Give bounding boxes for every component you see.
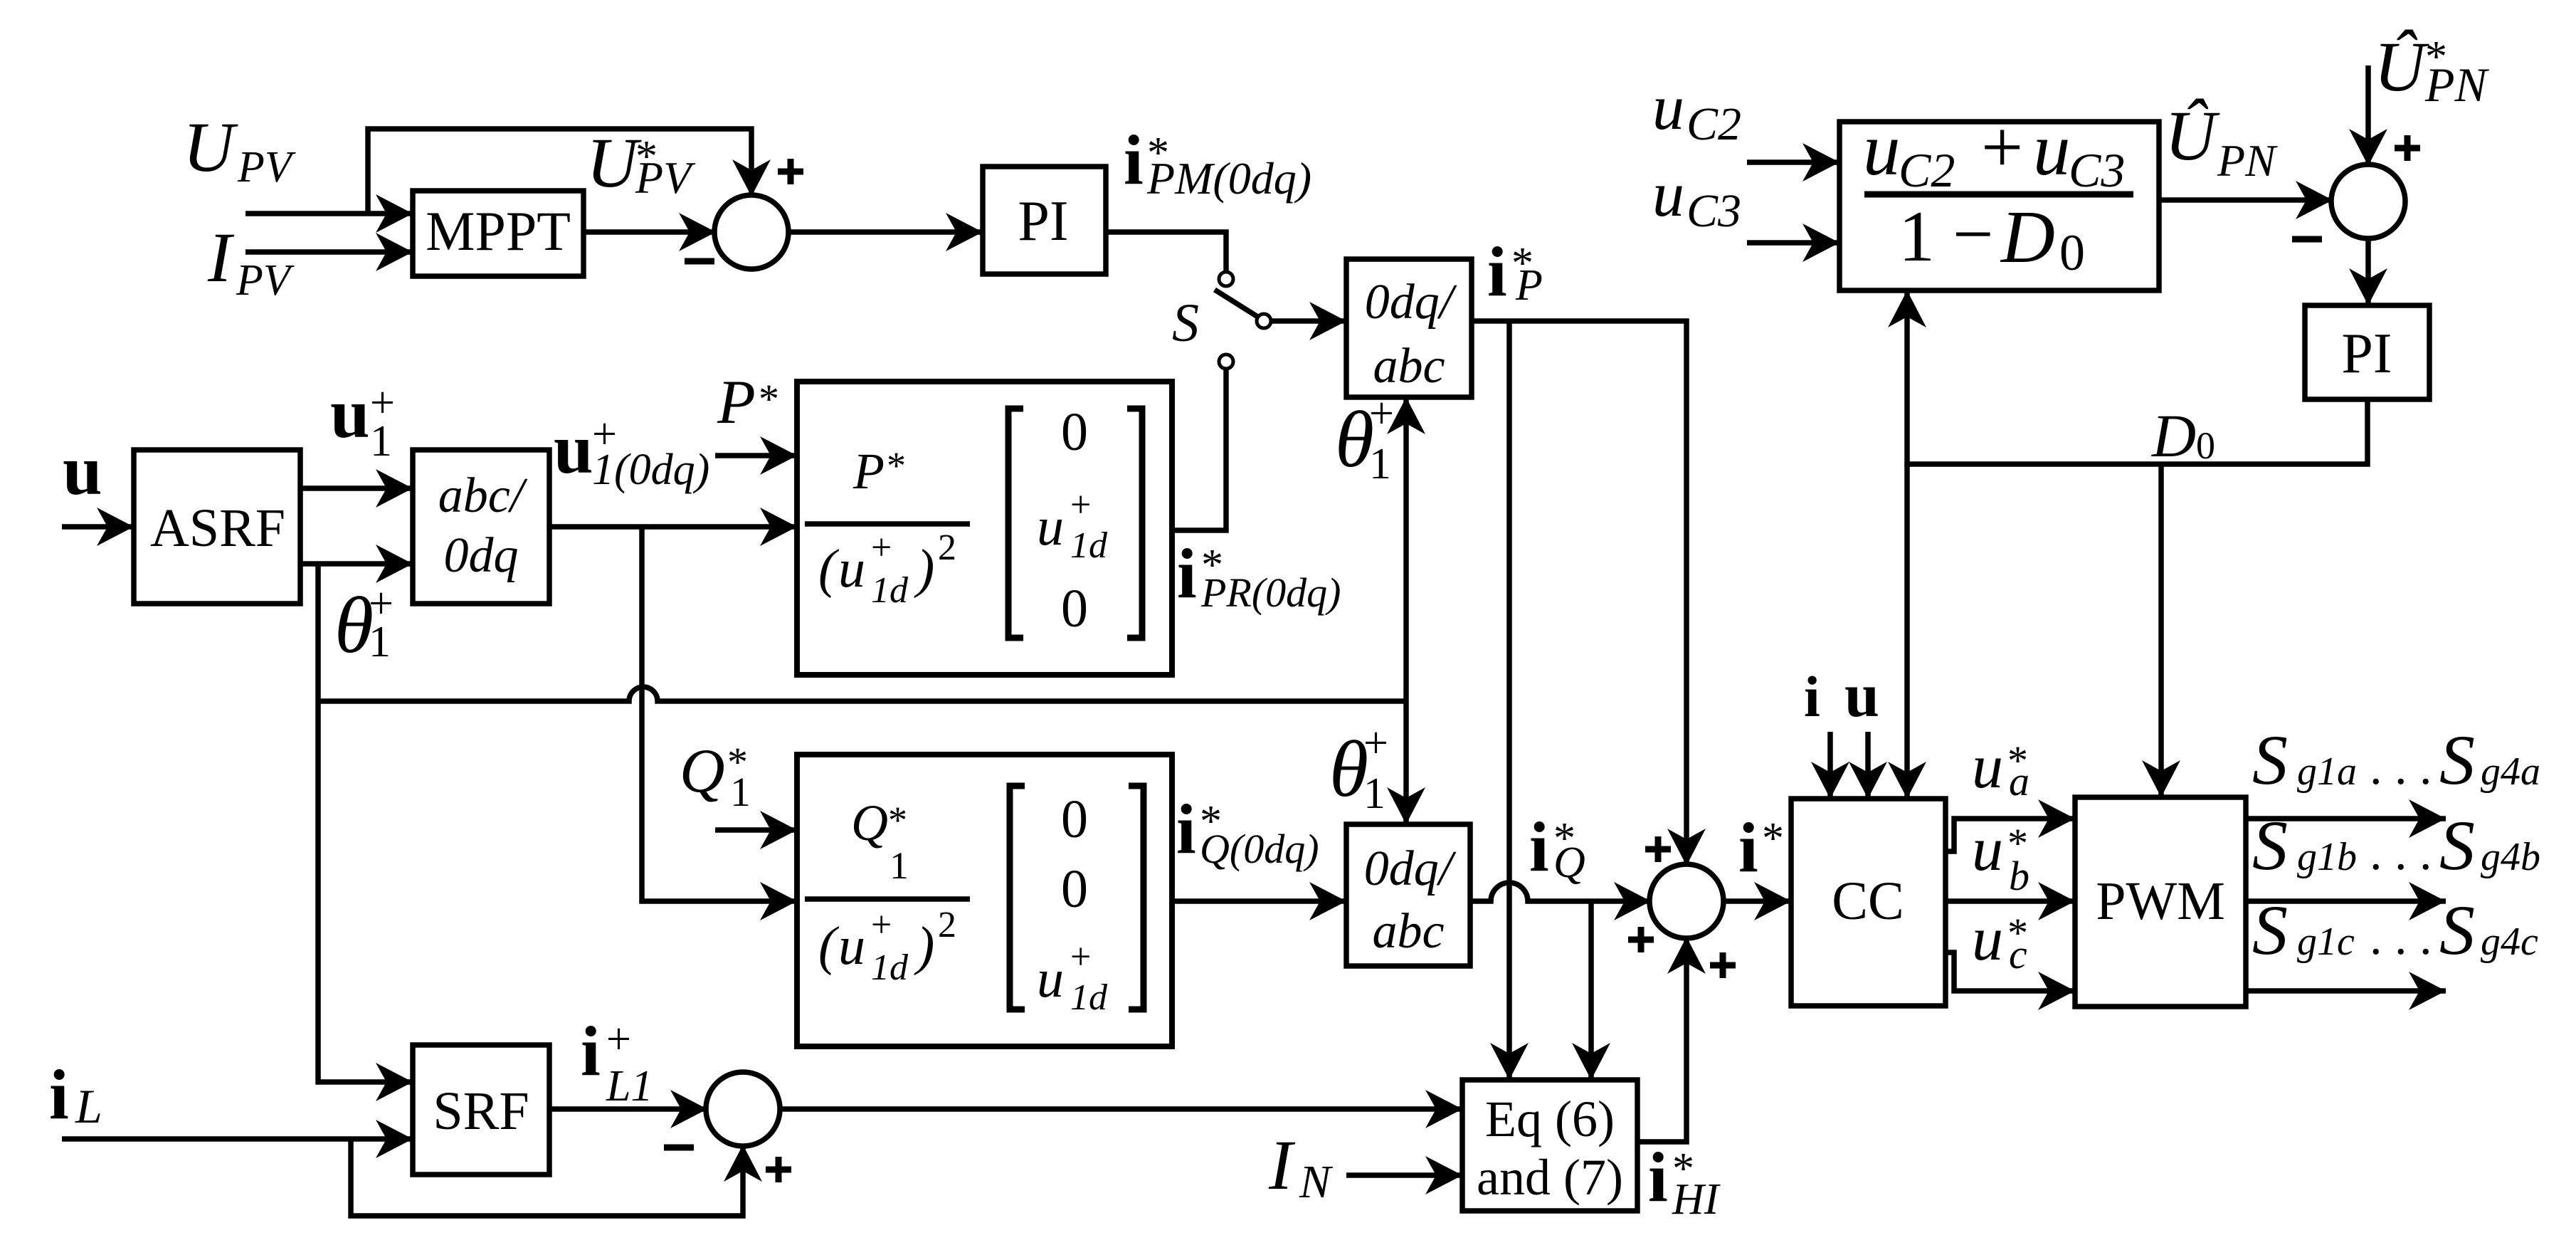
svg-text:0: 0	[1061, 859, 1088, 919]
switch top contact	[1219, 272, 1233, 286]
wire theta down into 0dq/abc lower block	[1403, 701, 1409, 824]
wire MPPT output	[584, 229, 716, 235]
label i bold CC input	[1804, 664, 1820, 729]
svg-text:1(0dq): 1(0dq)	[592, 446, 709, 494]
svg-text:S: S	[2252, 720, 2288, 799]
svg-text:g4c: g4c	[2481, 920, 2538, 964]
svg-text:1: 1	[369, 618, 391, 666]
wire theta horizontal with hop to transform blocks	[318, 687, 1406, 701]
minus sign at S1 left input	[685, 258, 714, 265]
fraction Q* denominator (u1d+)^2	[818, 905, 956, 988]
svg-text:i: i	[581, 1012, 601, 1091]
wire u_C3 input	[1747, 240, 1839, 246]
wire i into CC	[1827, 732, 1833, 799]
wire u*_b CC to PWM	[1946, 898, 2075, 904]
svg-text:*: *	[888, 799, 907, 841]
plus sign at S2 top input	[1645, 836, 1671, 862]
svg-text:g4b: g4b	[2481, 835, 2540, 879]
matrix Q entry 0 middle	[1061, 859, 1088, 919]
svg-text:D: D	[2000, 195, 2055, 278]
svg-text:0: 0	[1061, 579, 1088, 639]
minus sign at S4 left input	[2292, 236, 2322, 243]
fraction bar	[1864, 191, 2133, 198]
block PI2	[2305, 305, 2429, 399]
svg-text:+: +	[1070, 937, 1091, 977]
svg-text:U: U	[183, 107, 238, 187]
wire D0 branch down to PWM	[2158, 464, 2164, 797]
wire i*_P to summing junction S2	[1472, 321, 1686, 866]
svg-text:0dq/: 0dq/	[1364, 841, 1457, 896]
svg-text:−: −	[1953, 194, 1994, 275]
fraction Q* bar	[805, 896, 970, 902]
svg-text:ASRF: ASRF	[150, 498, 285, 558]
matrix P entry 0 bottom	[1061, 579, 1088, 639]
svg-text:0dq/: 0dq/	[1365, 275, 1457, 330]
svg-text:+: +	[871, 527, 892, 568]
svg-text:S: S	[2252, 891, 2288, 970]
svg-text:CC: CC	[1832, 871, 1904, 931]
svg-text:N: N	[1299, 1156, 1334, 1208]
svg-text:u: u	[2033, 107, 2071, 191]
svg-text:PI: PI	[2341, 322, 2392, 385]
svg-text:S: S	[2439, 806, 2475, 885]
svg-text:u: u	[330, 374, 370, 453]
fraction Q*1 numerator	[851, 794, 909, 887]
svg-text:HI: HI	[1672, 1175, 1721, 1224]
svg-text:a: a	[2009, 758, 2029, 804]
label u1(0dq)+	[554, 409, 709, 494]
wire S3 output to Eq block	[778, 1106, 1462, 1112]
svg-text:C3: C3	[1686, 185, 1741, 237]
svg-text:0: 0	[2059, 224, 2085, 281]
block 0dq/abc lower	[1346, 824, 1470, 966]
svg-text:PR(0dq): PR(0dq)	[1200, 569, 1341, 616]
wire i*_PR from P block to switch bottom contact	[1172, 369, 1226, 530]
summing junction S1	[714, 195, 788, 269]
block SRF	[413, 1045, 549, 1175]
label i_L	[49, 1055, 102, 1134]
svg-text:PI: PI	[1018, 190, 1068, 253]
summing junction S4	[2331, 164, 2405, 238]
svg-text:abc/: abc/	[438, 468, 528, 523]
matrix Q left bracket	[1010, 786, 1025, 1009]
svg-text:S: S	[2439, 891, 2475, 970]
svg-text:u: u	[1863, 107, 1901, 191]
svg-text:PV: PV	[635, 152, 696, 203]
label u*_a	[1972, 732, 2029, 804]
svg-text:L1: L1	[606, 1062, 653, 1110]
svg-text:Q: Q	[1553, 839, 1585, 887]
matrix Q entry 0 top	[1061, 789, 1088, 849]
label u1+	[330, 374, 395, 466]
svg-text:*: *	[759, 376, 779, 422]
block PI1	[983, 167, 1106, 274]
svg-text:PM(0dq): PM(0dq)	[1146, 153, 1311, 204]
switch blade	[1215, 290, 1259, 317]
svg-text:i: i	[1177, 534, 1197, 613]
plus sign at S1 top input	[778, 159, 803, 184]
wire S_g1a output	[2246, 816, 2446, 821]
label S_g1a...S_g4a	[2252, 720, 2540, 799]
label S_g1b...S_g4b	[2252, 806, 2540, 885]
matrix P left bracket	[1008, 409, 1023, 638]
svg-text:u: u	[1972, 815, 2003, 884]
svg-text:0: 0	[1061, 402, 1088, 462]
wire S1 to PI	[787, 229, 983, 235]
label i*_Q	[1529, 807, 1585, 887]
svg-text:i: i	[1124, 120, 1144, 199]
svg-text:u: u	[1972, 732, 2003, 802]
svg-text:Û: Û	[2165, 96, 2220, 175]
svg-text:0: 0	[1061, 789, 1088, 849]
wire u input	[62, 524, 134, 530]
wire theta1+ ASRF to abc/0dq	[300, 561, 413, 567]
wire u1+ ASRF to abc/0dq	[300, 485, 413, 491]
svg-text:u: u	[63, 431, 102, 510]
label i+_L1	[581, 1012, 653, 1110]
wire Q*1 input	[715, 827, 797, 833]
fraction P* denominator (u1d+)^2	[818, 527, 956, 611]
svg-text:1: 1	[370, 417, 392, 466]
svg-text:i: i	[1176, 789, 1196, 868]
plus sign at S2 left input	[1628, 927, 1654, 952]
svg-text:g1a: g1a	[2297, 750, 2357, 794]
svg-text:i: i	[1738, 808, 1758, 887]
wire i* S2 to CC	[1722, 898, 1791, 904]
svg-text:0dq: 0dq	[444, 528, 519, 583]
label u bold CC input	[1844, 661, 1879, 730]
svg-text:g4a: g4a	[2481, 750, 2540, 794]
wire i_L input	[62, 1136, 413, 1142]
svg-text:i: i	[49, 1055, 69, 1134]
svg-text:P: P	[852, 443, 885, 500]
label theta1+ at box1 bottom	[1335, 389, 1394, 488]
label S switch	[1172, 293, 1199, 353]
svg-text:2: 2	[938, 905, 956, 945]
wire i*_HI Eq output up to S2	[1637, 937, 1686, 1142]
svg-text:g1c: g1c	[2297, 920, 2355, 964]
svg-text:1: 1	[890, 844, 909, 887]
label U*_PV	[586, 123, 696, 203]
label P* input	[717, 368, 779, 437]
wire S_g1c output	[2246, 988, 2446, 994]
label i*_Q(0dq)	[1176, 789, 1319, 872]
svg-text:PN: PN	[2424, 58, 2490, 112]
svg-text:MPPT: MPPT	[426, 200, 571, 262]
svg-text:PWM: PWM	[2096, 871, 2225, 931]
wire I_N input	[1346, 1172, 1462, 1178]
svg-text:c: c	[2009, 931, 2027, 977]
svg-text:Eq (6): Eq (6)	[1485, 1091, 1615, 1147]
block P* gain	[797, 382, 1172, 675]
fraction denominator 1-D0	[1899, 194, 2085, 281]
svg-text:θ: θ	[1329, 725, 1368, 814]
svg-text:. . .: . . .	[2370, 910, 2432, 965]
block CC	[1791, 799, 1946, 1006]
label S_g1c...S_g4c	[2252, 891, 2538, 970]
wire U^*_PN input down to S4	[2365, 65, 2371, 166]
wire U_PV feedback to summing junction	[368, 129, 751, 214]
label U_PV	[183, 107, 296, 191]
wire u*_a CC to PWM	[1946, 819, 2075, 851]
svg-text:Q: Q	[680, 737, 725, 806]
wire U_PV input	[246, 211, 413, 216]
svg-text:1: 1	[1899, 196, 1935, 277]
svg-text:D: D	[2151, 401, 2196, 470]
svg-text:. . .: . . .	[2370, 740, 2432, 795]
matrix P right bracket	[1127, 409, 1142, 638]
svg-text:abc: abc	[1373, 339, 1445, 394]
svg-text:*: *	[1762, 814, 1784, 863]
wire theta vertical branch down to SRF	[318, 564, 413, 1082]
svg-text:Q: Q	[851, 794, 888, 851]
svg-text:1: 1	[730, 769, 751, 815]
wire D0 from PI2 to fraction block and converters	[1907, 290, 2368, 464]
wire u1(0dq) to P block	[549, 524, 797, 530]
svg-text:+: +	[1363, 719, 1388, 767]
label I_N	[1268, 1125, 1334, 1208]
svg-text:+: +	[606, 1015, 631, 1063]
matrix P entry 0 top	[1061, 402, 1088, 462]
switch bottom contact	[1219, 354, 1233, 369]
label U^*_PN reference	[2374, 27, 2490, 112]
svg-text:P: P	[1515, 261, 1543, 310]
svg-text:*: *	[887, 444, 906, 487]
svg-text:u: u	[1652, 159, 1684, 230]
svg-text:u: u	[1652, 73, 1684, 143]
svg-text:+: +	[1070, 485, 1091, 525]
matrix Q entry u1d+ bottom	[1037, 937, 1108, 1018]
label i*_PR(0dq)	[1177, 534, 1341, 616]
svg-text:u: u	[1037, 949, 1064, 1009]
label U^_PN	[2165, 96, 2278, 186]
plus sign at S2 bottom input	[1710, 952, 1736, 978]
svg-text:S: S	[2439, 720, 2475, 799]
wire i*_Q branch down to Eq block	[1588, 901, 1594, 1080]
label i*_HI	[1648, 1138, 1721, 1224]
svg-text:u: u	[554, 409, 593, 488]
minus sign at S3 left input	[664, 1145, 694, 1151]
label u*_b	[1972, 815, 2029, 899]
wire switch to 0dq/abc block	[1271, 318, 1346, 324]
svg-text:0: 0	[2196, 424, 2215, 467]
svg-text:i: i	[1529, 807, 1549, 886]
plus sign at S4 top input	[2395, 135, 2420, 161]
svg-text:1d: 1d	[871, 570, 909, 611]
svg-text:I: I	[1268, 1125, 1296, 1204]
wire u into CC	[1865, 732, 1871, 799]
wire u_C2 input	[1747, 159, 1839, 165]
summing junction S3	[706, 1072, 780, 1146]
wire S4 output to PI2	[2365, 237, 2371, 305]
label theta1+ at box2 top	[1329, 719, 1388, 818]
svg-text:b: b	[2009, 853, 2029, 899]
svg-text:u: u	[1972, 905, 2003, 974]
svg-text:C2: C2	[1686, 98, 1741, 150]
summing junction S2	[1649, 864, 1724, 938]
label u*_c	[1972, 905, 2028, 977]
label I_PV	[207, 218, 295, 305]
label i*_PM(0dq)	[1124, 120, 1311, 204]
svg-text:C2: C2	[1899, 143, 1955, 197]
svg-text:+: +	[871, 905, 892, 945]
label D0	[2151, 401, 2215, 470]
svg-text:1d: 1d	[871, 947, 909, 988]
wire D0 branch down to CC	[1904, 464, 1910, 799]
fraction P* numerator	[852, 443, 906, 500]
switch middle contact	[1257, 314, 1271, 328]
wire SRF output to S3	[549, 1106, 707, 1112]
wire S_g1b output	[2246, 898, 2446, 904]
svg-text:I: I	[207, 218, 235, 297]
svg-text:1d: 1d	[1070, 977, 1108, 1018]
matrix P entry u1d+ middle	[1037, 485, 1108, 566]
svg-text:u: u	[1844, 661, 1879, 730]
svg-text:P: P	[717, 368, 756, 437]
svg-text:abc: abc	[1372, 904, 1444, 959]
svg-text:S: S	[1172, 293, 1199, 353]
label i*	[1738, 808, 1784, 887]
wire PI1 output to switch top contact	[1106, 232, 1226, 272]
label u_C3	[1652, 159, 1741, 237]
matrix Q right bracket	[1129, 786, 1144, 1009]
block abc/0dq	[413, 450, 549, 604]
label i*_P	[1487, 232, 1543, 311]
block 0dq/abc upper	[1346, 259, 1472, 397]
svg-text:): )	[914, 916, 934, 976]
wire theta up into 0dq/abc upper block	[1403, 397, 1409, 701]
wire i*_P branch down to Eq block	[1506, 321, 1512, 1080]
svg-text:): )	[914, 539, 934, 599]
svg-text:Û: Û	[2374, 27, 2429, 106]
svg-text:2: 2	[938, 527, 956, 568]
fraction numerator uC2+uC3	[1863, 105, 2125, 197]
svg-text:SRF: SRF	[433, 1081, 529, 1141]
svg-text:1: 1	[1369, 440, 1391, 488]
svg-text:i: i	[1487, 232, 1507, 311]
svg-text:u: u	[1037, 497, 1064, 557]
block Q* gain	[797, 755, 1172, 1046]
label Q*1 input	[680, 737, 751, 815]
svg-text:i: i	[1804, 664, 1820, 729]
wire Q block output to 0dq/abc lower	[1172, 898, 1346, 904]
svg-text:g1b: g1b	[2297, 835, 2357, 879]
block Eq 6 and 7	[1462, 1080, 1637, 1211]
label u_C2	[1652, 73, 1741, 150]
fraction P* bar	[805, 521, 970, 527]
block voltage estimator fraction	[1839, 122, 2159, 290]
svg-text:u: u	[838, 539, 865, 599]
wire u*_c CC to PWM	[1946, 952, 2075, 991]
wire I_PV input	[246, 249, 413, 255]
svg-text:S: S	[2252, 806, 2288, 885]
svg-text:and (7): and (7)	[1477, 1149, 1623, 1206]
svg-text:1d: 1d	[1070, 525, 1108, 566]
svg-text:PN: PN	[2217, 135, 2278, 186]
wire i_L branch to summing junction S3 bottom	[351, 1139, 743, 1216]
svg-text:L: L	[75, 1079, 102, 1133]
svg-text:U: U	[586, 123, 642, 202]
wire U^_PN to summing junction S4	[2160, 197, 2333, 203]
block PWM	[2075, 797, 2246, 1007]
block MPPT	[413, 191, 584, 276]
svg-text:C3: C3	[2069, 143, 2125, 197]
svg-text:Q(0dq): Q(0dq)	[1200, 826, 1319, 872]
svg-text:1: 1	[1363, 770, 1385, 818]
svg-text:u: u	[838, 916, 865, 976]
label u bold	[63, 431, 102, 510]
plus sign at S3 bottom input	[766, 1157, 791, 1182]
svg-text:+: +	[1981, 105, 2023, 189]
svg-text:i: i	[1648, 1138, 1668, 1217]
svg-text:θ: θ	[1335, 396, 1374, 484]
svg-text:. . .: . . .	[2370, 826, 2432, 881]
label theta1+ left	[334, 579, 394, 670]
svg-text:PV: PV	[237, 143, 296, 191]
svg-text:PV: PV	[236, 256, 295, 305]
block ASRF	[134, 450, 300, 604]
svg-text:+: +	[1369, 389, 1394, 438]
wire P* input	[715, 453, 797, 458]
wire u1(0dq) branch down to Q block	[642, 527, 797, 901]
wire i*_Q to summing junction S2 with hop	[1470, 883, 1651, 901]
svg-text:θ: θ	[334, 582, 374, 670]
